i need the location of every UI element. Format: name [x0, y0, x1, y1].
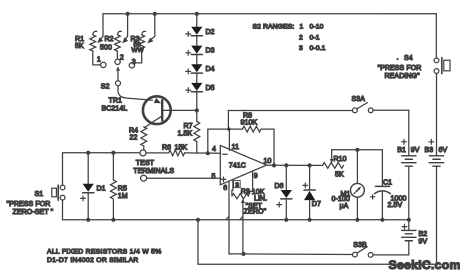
svg-text:S1: S1 [35, 191, 44, 198]
resistor R10 5K rheostat [323, 163, 344, 169]
svg-text:5: 5 [212, 174, 216, 181]
battery B1 9V [402, 155, 416, 157]
svg-text:22: 22 [130, 135, 138, 142]
wire: C1 riser [381, 150, 383, 186]
svg-text:TEST: TEST [136, 160, 155, 167]
meter M1 0-100 uA [351, 183, 365, 197]
terminal 3 of S2 [129, 63, 134, 68]
svg-text:R5: R5 [118, 186, 127, 193]
potentiometer R1 5K [90, 35, 96, 51]
S3B blade [357, 247, 368, 254]
junction wiper / pin6 wire [241, 252, 245, 256]
svg-text:WW: WW [132, 47, 145, 54]
potentiometer R9 10K LIN SET ZERO [232, 194, 249, 199]
svg-text:741C: 741C [229, 163, 246, 170]
wire R6 to op-amp pin 4 [185, 152, 221, 154]
svg-text:ZERO": ZERO" [244, 209, 267, 216]
wire [196, 110, 198, 121]
wire: R6 from upper test terminal [146, 152, 168, 154]
svg-text:S3B: S3B [353, 242, 367, 249]
box around pin 3 label [234, 181, 241, 188]
svg-text:LIN.: LIN. [254, 195, 267, 202]
svg-text:6: 6 [223, 185, 227, 192]
svg-text:TERMINALS: TERMINALS [133, 168, 174, 175]
svg-text:R1: R1 [75, 36, 84, 43]
svg-text:D5: D5 [206, 85, 215, 92]
wire: right edge from top rail down to S4 [435, 14, 437, 58]
svg-text:1: 1 [97, 57, 101, 64]
minus sign inverting input [223, 153, 228, 155]
junction bottom rail / R5 [111, 218, 115, 222]
svg-text:S2: S2 [101, 84, 110, 91]
op-amp U1 741C triangle [220, 145, 266, 184]
terminal 1 of S2 [101, 62, 106, 67]
svg-text:2: 2 [120, 55, 124, 62]
svg-text:B1: B1 [397, 147, 406, 154]
wire B1 to ground rail [408, 166, 410, 220]
junction pin4 wire / R8 branch [206, 151, 210, 155]
svg-text:15K: 15K [175, 145, 188, 152]
wire R2 to terminal 2 [116, 51, 118, 59]
svg-text:D3: D3 [206, 48, 215, 55]
capacitor C1 1000uF 2.5V [375, 185, 389, 187]
svg-text:0-10: 0-10 [310, 23, 324, 30]
junction bottom rail / D1 [86, 218, 90, 222]
svg-text:0-1: 0-1 [310, 34, 320, 41]
wire TR1 base to diode chain node [163, 109, 197, 111]
junction top rail / R2 riser [126, 12, 130, 16]
diode D1 branch wire [87, 153, 89, 184]
wire D1 to ground rail [87, 193, 89, 219]
resistor R7 1.5K [194, 121, 200, 141]
svg-text:μA: μA [340, 203, 349, 210]
svg-text:2: 2 [299, 34, 303, 41]
svg-text:1M: 1M [118, 193, 128, 200]
wire: op-amp pin 9 down to R9 right end [248, 171, 252, 196]
svg-text:BC214L: BC214L [102, 106, 128, 113]
svg-text:10: 10 [264, 158, 272, 165]
switch S4 push-button [434, 58, 439, 63]
svg-text:SeekIC.com: SeekIC.com [389, 258, 460, 272]
wire: diode chain from top rail [196, 14, 198, 27]
svg-text:1.5K: 1.5K [178, 131, 193, 138]
wire [196, 74, 198, 83]
diode D3 [191, 46, 202, 54]
svg-text:D2: D2 [206, 29, 215, 36]
switch S3B [368, 253, 373, 258]
wire: op-amp pin 3 to R9 left end [232, 180, 233, 195]
svg-text:D4: D4 [206, 66, 215, 73]
svg-text:R7: R7 [184, 123, 193, 130]
svg-text:R9: R9 [241, 188, 250, 195]
svg-text:6V: 6V [439, 147, 448, 154]
wire: R3 wiper riser from top rail [150, 14, 155, 41]
switch S3A [353, 108, 358, 113]
wire: riser from R8 line up to S3A wire [227, 111, 229, 130]
svg-text:"PRESS FOR: "PRESS FOR [378, 65, 422, 72]
svg-text:0-100: 0-100 [332, 196, 350, 203]
wire: R10 wiper up and over to meter/C1 [331, 150, 333, 159]
junction bottom rail / M1 [355, 218, 359, 222]
battery B2 9V [402, 229, 416, 231]
junction output / D7 [308, 163, 312, 167]
svg-text:910K: 910K [241, 119, 258, 126]
svg-text:500: 500 [100, 45, 112, 52]
junction output / D6 [284, 163, 288, 167]
junction / R5 top [111, 151, 115, 155]
svg-text:R2: R2 [105, 36, 114, 43]
wire R3 to terminal 3 [135, 51, 142, 63]
svg-text:5K: 5K [335, 172, 344, 179]
wire R1 to terminal 1 [93, 51, 100, 65]
svg-text:0-0.1: 0-0.1 [310, 45, 326, 52]
diode D2 [191, 27, 202, 35]
wire: R9 wiper down with hop over ground rail [242, 203, 244, 254]
svg-text:D1: D1 [97, 186, 106, 193]
wire: top positive rail [103, 13, 436, 15]
svg-text:S4: S4 [404, 55, 413, 62]
svg-text:ALL FIXED RESISTORS 1/4 W 5%: ALL FIXED RESISTORS 1/4 W 5% [47, 248, 162, 255]
svg-text:ZERO-SET ": ZERO-SET " [13, 209, 54, 216]
resistor R8 910K [242, 126, 261, 132]
wire: R8 right branch down to output [261, 129, 274, 165]
junction top rail / R3 riser [153, 12, 157, 16]
wire: R8 feedback left branch [208, 129, 243, 153]
svg-text:5K: 5K [75, 43, 84, 50]
potentiometer R2 500 [115, 35, 121, 51]
svg-text:3: 3 [132, 59, 136, 66]
wire diode chain to base node [196, 91, 198, 110]
junction R8 line / pin 11 riser [227, 127, 230, 130]
svg-text:R10: R10 [334, 156, 347, 163]
switch S1 push-button [62, 153, 64, 185]
wire D6 to ground rail [285, 199, 287, 219]
svg-text:R6: R6 [162, 145, 171, 152]
wire meter to ground rail [356, 197, 358, 220]
svg-text:B3: B3 [425, 147, 434, 154]
diode D6 [281, 190, 292, 198]
svg-text:R4: R4 [129, 128, 138, 135]
svg-text:2.5V: 2.5V [388, 202, 403, 209]
wire S4 to B3 [436, 73, 438, 155]
svg-text:"PRESS FOR: "PRESS FOR [7, 201, 51, 208]
meter needle [354, 188, 360, 194]
wire [196, 36, 198, 45]
junction / D1 top [86, 151, 90, 155]
wire: meter riser [356, 150, 358, 184]
wire: B2 negative to S3B [373, 241, 409, 255]
wire [196, 55, 198, 64]
terminal 2 of S2 [115, 59, 120, 64]
wire R4 to test terminal [143, 146, 145, 150]
svg-text:D7: D7 [312, 201, 321, 208]
diode D7 [304, 189, 315, 191]
svg-text:11: 11 [232, 144, 239, 151]
transistor TR1 BC214L [143, 96, 171, 124]
svg-text:3: 3 [235, 182, 239, 189]
diode D1 [83, 184, 94, 192]
plus sign non-inverting input [221, 177, 226, 182]
wire C1 to ground rail [381, 192, 383, 220]
svg-text:9V: 9V [419, 239, 428, 246]
svg-text:D1-D7 IN4002 OR SIMILAR: D1-D7 IN4002 OR SIMILAR [47, 257, 139, 264]
svg-text:9V: 9V [411, 147, 420, 154]
junction top rail / diode chain [195, 12, 199, 16]
wire: zero-set bus left of upper test terminal [63, 152, 140, 154]
svg-text:4: 4 [212, 146, 216, 153]
wire B3 negative down right edge, along bottom, up to ground rail [198, 166, 437, 264]
test terminal (upper) [140, 150, 146, 156]
junction bottom rail / C1 [380, 218, 384, 222]
junction node: base / diode chain / R7 [195, 108, 199, 112]
junction bottom rail / D7 [308, 218, 312, 222]
wire: R1 wiper riser from top rail [100, 14, 103, 40]
wire: non-inverting input pin 5 [147, 177, 221, 179]
test terminal (lower) [141, 175, 147, 181]
resistor R6 15K [169, 150, 185, 156]
wire: R2 wiper riser from top rail [125, 14, 128, 40]
wire D7 to ground rail [309, 200, 311, 220]
junction output / R8 [272, 163, 276, 167]
svg-text:3: 3 [299, 45, 303, 52]
wire: S3A to B1 [373, 110, 409, 156]
svg-text:C1: C1 [383, 180, 392, 187]
svg-text:D6: D6 [275, 183, 284, 190]
svg-text:B2: B2 [419, 231, 428, 238]
junction bottom rail / B1/B2 [407, 218, 411, 222]
junction bottom rail / D6 [284, 218, 288, 222]
svg-text:READING": READING" [385, 73, 421, 80]
S3A blade [357, 103, 368, 109]
potentiometer R3 50 WW [139, 35, 145, 51]
wire S2 wiper to TR1 emitter [118, 86, 153, 101]
svg-text:TR1: TR1 [109, 98, 123, 105]
switch S2 wiper arm [117, 70, 119, 81]
battery B3 6V [429, 155, 443, 157]
resistor R4 22 [141, 127, 147, 146]
wire: pin11 node to S3A [228, 110, 352, 112]
wire: op-amp pin 11 [228, 129, 230, 150]
diode D6 branch [285, 165, 287, 189]
svg-text:1: 1 [300, 23, 304, 30]
wire: op-amp pin 6 down with hop over ground rail [229, 181, 244, 254]
wire: bottom rail [63, 200, 409, 220]
svg-text:.: . [397, 55, 399, 62]
diode D5 [191, 83, 202, 91]
wire: op-amp output pin 10 [267, 164, 323, 166]
diode D7 branch [309, 165, 311, 189]
svg-text:9: 9 [254, 173, 258, 180]
wire R7 to inverting input line [196, 142, 198, 154]
resistor R5 1M branch [112, 153, 114, 180]
junction bottom rail / bottom return [196, 218, 200, 222]
svg-text:S2 RANGES:: S2 RANGES: [253, 23, 295, 30]
wire: S3B to pin6/wiper net [244, 253, 353, 256]
svg-text:S3A: S3A [352, 96, 366, 103]
diode D4 [191, 64, 202, 72]
junction wiper wire / meter riser [355, 148, 359, 152]
wire: B1/B2 junction below rail [408, 220, 410, 231]
